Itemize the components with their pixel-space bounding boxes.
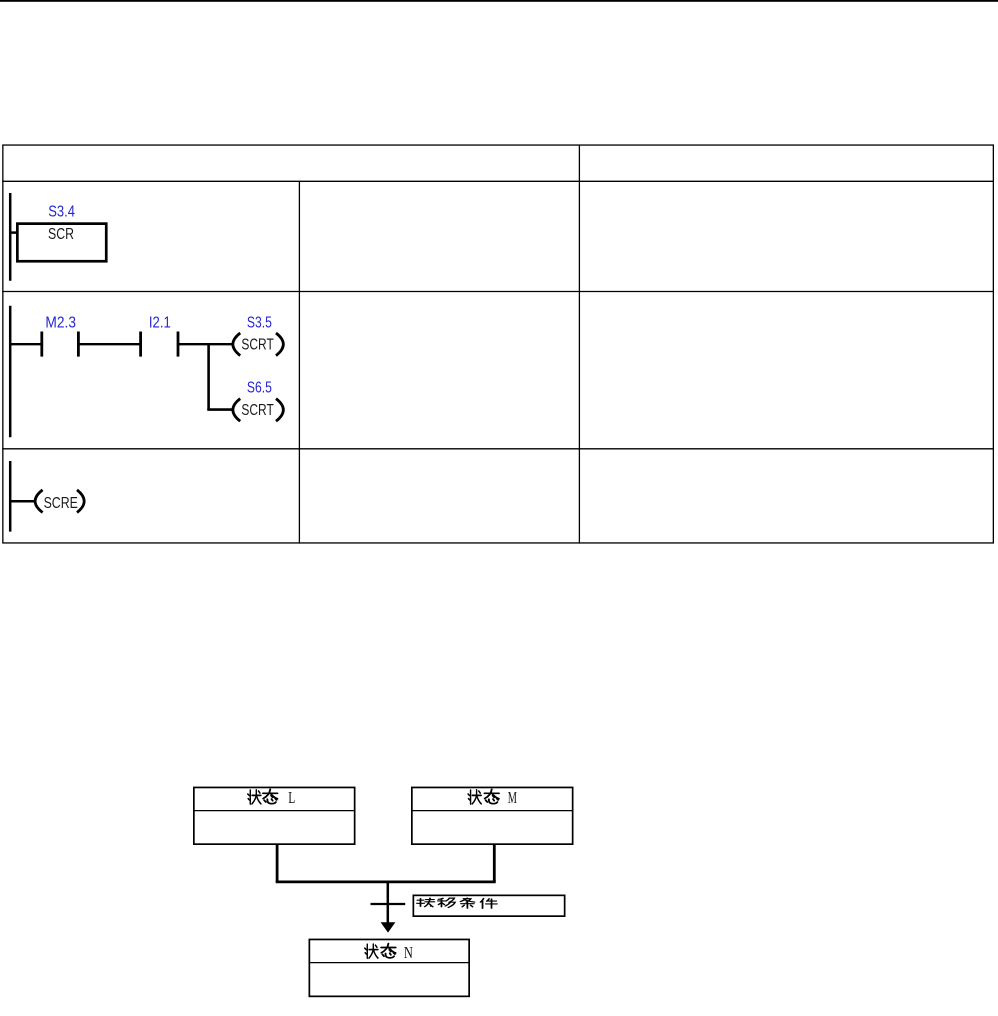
branch wire down <box>207 343 210 410</box>
wire rail to coil SCRE <box>9 500 36 503</box>
wire rail to contact M2.3 <box>9 343 41 345</box>
svg-text:SCRT: SCRT <box>241 336 274 353</box>
wire from box L down <box>276 845 279 882</box>
state box L text 状态 L <box>248 788 295 807</box>
wire junction down to state N <box>387 881 390 924</box>
state box N divider <box>309 962 471 964</box>
transition condition text <box>417 898 497 908</box>
table outer border <box>3 145 994 543</box>
branch wire to coil S6.5 <box>207 408 234 411</box>
contact I2.1 <box>141 332 178 357</box>
coil SCRT S6.5 <box>233 399 284 422</box>
transition condition box 转移条件 <box>413 895 564 916</box>
state box M text 状态 M <box>468 788 517 807</box>
arrow head <box>381 922 396 932</box>
contact M2.3 <box>42 332 79 357</box>
svg-text:SCRE: SCRE <box>44 495 78 512</box>
svg-text:M: M <box>508 788 517 807</box>
state box M <box>412 787 573 844</box>
svg-text:S3.5: S3.5 <box>247 314 272 331</box>
svg-text:L: L <box>288 788 295 807</box>
transition tick <box>371 903 406 905</box>
coil SCRT S3.5 <box>233 333 284 356</box>
svg-text:SCR: SCR <box>48 226 74 243</box>
wire contact M2.3 to contact I2.1 <box>78 343 140 345</box>
state box L divider <box>193 810 356 812</box>
state box N <box>309 939 469 996</box>
svg-text:SCRT: SCRT <box>241 402 274 419</box>
state box L <box>194 787 355 844</box>
state box M divider <box>411 810 574 812</box>
svg-text:N: N <box>404 943 413 962</box>
SCR box U1 <box>17 224 106 262</box>
junction horizontal wire <box>276 881 496 884</box>
table header bottom border <box>2 180 994 182</box>
wire from box M down <box>493 845 496 882</box>
svg-text:S3.4: S3.4 <box>48 203 75 220</box>
table row1 bottom border <box>2 291 994 293</box>
table row2 bottom border <box>2 448 994 450</box>
svg-text:S6.5: S6.5 <box>247 380 272 397</box>
svg-text:I2.1: I2.1 <box>149 315 171 332</box>
table column divider x579 (all rows) <box>578 145 580 544</box>
wire contact I2.1 to coil S3.5 <box>178 343 234 345</box>
coil SCRE <box>35 490 84 513</box>
svg-text:M2.3: M2.3 <box>45 315 76 332</box>
row3 left power rail <box>9 461 12 532</box>
top scan bar <box>0 0 998 2</box>
row1 left power rail <box>9 193 12 281</box>
row2 left power rail <box>9 306 12 438</box>
table column divider x299 (body rows) <box>298 181 300 543</box>
state box N text 状态 N <box>365 943 413 962</box>
row1 wire rail to SCR box <box>9 231 17 234</box>
